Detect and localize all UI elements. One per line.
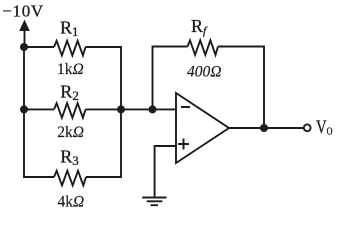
resistor R1 xyxy=(54,41,86,56)
svg-text:1kΩ: 1kΩ xyxy=(57,61,84,78)
node: feedback tap junction xyxy=(149,105,157,113)
svg-text:VO: VO xyxy=(316,117,333,138)
svg-text:R3: R3 xyxy=(60,146,79,168)
ground xyxy=(142,198,166,206)
svg-text:R2: R2 xyxy=(60,82,79,104)
resistor Rf xyxy=(188,40,219,55)
node: supply/R2 junction xyxy=(20,105,28,113)
svg-text:400Ω: 400Ω xyxy=(187,64,221,81)
wire: feedback right rail and drop to output xyxy=(218,47,264,129)
svg-text:2kΩ: 2kΩ xyxy=(57,124,84,141)
wire: summing node bus to op-amp inverting input xyxy=(86,108,177,110)
node: output/feedback junction xyxy=(260,124,268,132)
wire: op-amp output to terminal xyxy=(229,127,304,129)
wire: R2 left lead xyxy=(24,108,54,110)
wire: R1 left lead xyxy=(24,46,54,48)
wire: feedback left riser and rail xyxy=(153,47,188,110)
node: supply/R1 junction xyxy=(20,43,28,51)
wire: left supply rail xyxy=(23,47,25,177)
wire: R3 left lead from rail xyxy=(24,175,54,178)
wire: non-inverting input to ground xyxy=(155,146,176,198)
node: R1/R3 summing junction xyxy=(117,105,125,113)
wire: R1 right lead and drop to summing node xyxy=(86,47,122,109)
svg-text:−10V: −10V xyxy=(2,1,44,20)
resistor R3 xyxy=(54,171,86,186)
wire: R3 right lead and riser to summing node xyxy=(86,109,121,177)
op-amp U1 xyxy=(176,93,229,163)
svg-text:Rf: Rf xyxy=(191,16,208,38)
supply arrow -10V xyxy=(19,20,30,48)
resistor R2 xyxy=(54,103,86,118)
svg-text:4kΩ: 4kΩ xyxy=(58,194,85,211)
svg-text:R1: R1 xyxy=(60,18,79,40)
terminal Vo (open circle) xyxy=(304,124,311,131)
